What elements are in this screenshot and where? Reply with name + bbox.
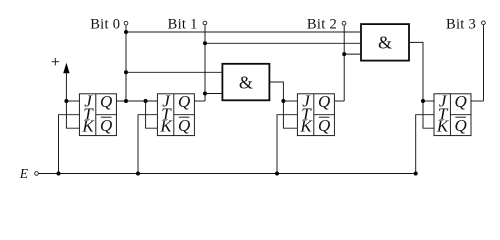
svg-text:Q: Q bbox=[455, 92, 467, 111]
svg-text:K: K bbox=[436, 117, 450, 136]
FF3 Q/Qbar divider bbox=[450, 114, 471, 116]
svg-text:&: & bbox=[378, 33, 392, 53]
wire FF2 J stub bbox=[283, 100, 297, 102]
wire Q0 to AND1 input 1 bbox=[126, 71, 222, 73]
wire FF3 Q output to node Q3 bbox=[471, 100, 484, 102]
svg-text:&: & bbox=[239, 72, 253, 92]
wire FF1 T to E line bbox=[138, 115, 157, 174]
FF0 column divider bbox=[95, 94, 97, 136]
svg-text:Bit 0: Bit 0 bbox=[90, 17, 120, 33]
wire Q0 to AND2 input 1 bbox=[126, 31, 361, 33]
FF1 Qbar overbar bbox=[179, 116, 190, 118]
wire J stub FF0 bbox=[66, 100, 79, 102]
junction power/J FF0 bbox=[64, 99, 68, 103]
junction Q0/AND1 bbox=[124, 70, 128, 74]
junction Q0/FF1 J bbox=[144, 99, 148, 103]
svg-text:Q: Q bbox=[178, 116, 190, 135]
svg-text:K: K bbox=[81, 117, 95, 136]
wire FF0 Q output to node Q0 bbox=[116, 100, 157, 102]
svg-text:Bit 2: Bit 2 bbox=[307, 17, 337, 33]
svg-text:Q: Q bbox=[178, 92, 190, 111]
junction AND2/FF3 J bbox=[421, 99, 425, 103]
terminal Bit 2 bbox=[342, 21, 346, 25]
FF2 Qbar overbar bbox=[319, 116, 330, 118]
junction AND1/FF2 J bbox=[281, 99, 285, 103]
junction E/FF0 T bbox=[57, 172, 61, 176]
terminal Bit 1 bbox=[203, 21, 207, 25]
junction Q1/bus bbox=[203, 41, 207, 45]
wire AND2 output to FF3 J/K bbox=[409, 42, 434, 128]
svg-text:Q: Q bbox=[318, 116, 330, 135]
FF3 Qbar overbar bbox=[455, 116, 466, 118]
wire Q0 to FF1 K bbox=[146, 101, 158, 128]
FF1 Q/Qbar divider bbox=[174, 114, 195, 116]
flip-flop FF3 box bbox=[434, 94, 471, 136]
svg-text:K: K bbox=[299, 117, 313, 136]
FF3 column divider bbox=[449, 94, 451, 136]
wire node Q3 vertical to Bit 3 terminal bbox=[483, 25, 485, 101]
AND gate U2 box bbox=[361, 24, 409, 61]
wire Q1 to AND2 input 2 bbox=[205, 42, 361, 44]
power + label bbox=[52, 58, 59, 65]
wire Q2 to AND2 input 3 bbox=[344, 53, 361, 55]
svg-text:Bit 1: Bit 1 bbox=[168, 17, 198, 33]
junction E/FF2 T bbox=[275, 172, 279, 176]
FF2 Q/Qbar divider bbox=[314, 114, 335, 116]
wire node Q1 vertical to Bit 1 terminal bbox=[204, 25, 206, 101]
wire node Q0 vertical to Bit 0 terminal bbox=[125, 25, 127, 101]
wire node Q2 vertical to Bit 2 terminal bbox=[343, 25, 345, 101]
terminal Bit 0 bbox=[124, 21, 128, 25]
flip-flop FF0 box bbox=[79, 94, 116, 136]
svg-text:K: K bbox=[159, 117, 173, 136]
FF0 Q/Qbar divider bbox=[96, 114, 117, 116]
AND gate U1 box bbox=[222, 64, 269, 101]
wire FF1 Q output to node Q1 bbox=[194, 100, 205, 102]
wire AND1 output to FF2 J/K bbox=[269, 82, 297, 128]
svg-text:Bit 3: Bit 3 bbox=[446, 17, 476, 33]
junction Q2/AND2 bbox=[342, 52, 346, 56]
wire FF0 T to E line bbox=[59, 115, 80, 174]
power arrow bbox=[63, 63, 69, 74]
junction Q0/bus bbox=[124, 30, 128, 34]
FF1 column divider bbox=[173, 94, 175, 136]
svg-text:Q: Q bbox=[100, 116, 112, 135]
terminal E bbox=[35, 172, 39, 176]
FF2 column divider bbox=[313, 94, 315, 136]
svg-text:Q: Q bbox=[455, 116, 467, 135]
wire E clock line bbox=[39, 173, 416, 175]
FF0 Qbar overbar bbox=[101, 116, 112, 118]
flip-flop FF1 box bbox=[157, 94, 194, 136]
junction Q0 output bbox=[124, 99, 128, 103]
wire Q1 to AND1 input 2 bbox=[205, 93, 222, 95]
junction E/FF1 T bbox=[136, 172, 140, 176]
wire FF2 Q output to node Q2 bbox=[334, 100, 344, 102]
wire FF3 J stub bbox=[423, 100, 434, 102]
svg-text:Q: Q bbox=[318, 92, 330, 111]
svg-text:Q: Q bbox=[100, 92, 112, 111]
flip-flop FF2 box bbox=[297, 94, 334, 136]
wire power vertical to J/K of FF0 bbox=[66, 73, 79, 129]
terminal Bit 3 bbox=[482, 21, 486, 25]
junction E/FF3 T bbox=[414, 172, 418, 176]
junction Q1/AND1 bbox=[203, 92, 207, 96]
svg-text:E: E bbox=[19, 166, 29, 181]
wire FF3 T to E line bbox=[416, 115, 434, 174]
wire FF2 T to E line bbox=[277, 115, 297, 174]
